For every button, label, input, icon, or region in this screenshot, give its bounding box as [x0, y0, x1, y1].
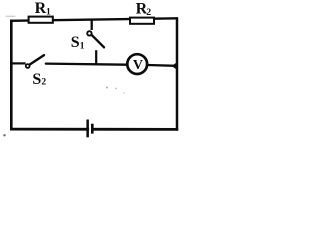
switch S1 blade	[92, 35, 104, 47]
switch S2 blade	[30, 55, 44, 65]
wire S1 lower stub	[95, 50, 97, 65]
wire S1 upper stub	[91, 19, 93, 30]
battery long plate	[86, 120, 89, 138]
svg-text:R: R	[35, 0, 47, 17]
speck lower middle	[123, 92, 125, 94]
speck near center	[106, 87, 108, 89]
wire left (outer loop)	[10, 20, 13, 131]
wire top (outer loop, under resistor boxes)	[10, 18, 178, 21]
svg-text:S: S	[71, 34, 80, 51]
resistor R1	[29, 17, 53, 23]
speck near center right	[115, 88, 117, 90]
wire bottom (outer loop)	[10, 128, 178, 131]
svg-text:1: 1	[46, 7, 51, 17]
wire right (outer loop)	[176, 17, 179, 130]
svg-text:1: 1	[80, 42, 85, 52]
switch S2 hinge circle	[26, 64, 30, 68]
wire middle left stub	[11, 62, 26, 64]
junction node	[172, 63, 177, 70]
svg-text:V: V	[133, 58, 143, 73]
svg-text:2: 2	[146, 8, 151, 18]
svg-text:2: 2	[41, 78, 46, 88]
voltmeter V	[127, 54, 147, 74]
switch S1 hinge circle	[87, 31, 91, 35]
battery gap	[89, 123, 91, 136]
battery short plate	[91, 124, 94, 134]
wire middle segment	[46, 64, 127, 65]
resistor R2	[130, 18, 154, 24]
speck bottom-left	[3, 134, 5, 136]
svg-text:S: S	[32, 71, 41, 88]
wire voltmeter to right	[147, 64, 175, 67]
smudge above top-left corner	[6, 16, 16, 17]
